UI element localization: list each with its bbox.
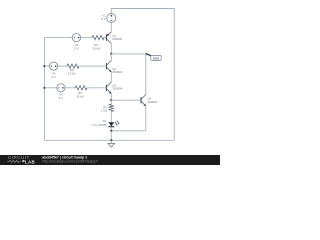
svg-text:5 V: 5 V [59, 96, 63, 100]
wire Q2 collector up to out node [110, 54, 112, 61]
svg-text:10 kΩ: 10 kΩ [92, 47, 100, 51]
svg-text:10 kΩ: 10 kΩ [76, 95, 84, 99]
wire node down to ground rail [110, 131, 112, 141]
transistor Q3 [106, 82, 123, 94]
svg-text:2N3904: 2N3904 [112, 70, 122, 74]
node out flag [146, 54, 161, 61]
transistor Q1 [106, 32, 123, 44]
svg-text:LAB: LAB [25, 160, 35, 165]
svg-text:5 V: 5 V [51, 75, 55, 79]
voltage source V2 [72, 33, 80, 50]
row C junction on left rail [43, 87, 45, 89]
wire Q4 emitter down and left to LED node [111, 106, 146, 131]
wire R5 to Q3 base [87, 87, 106, 89]
transistor Q2 [106, 60, 123, 74]
voltage source V1 [101, 13, 115, 22]
resistor R4 [92, 36, 104, 51]
wire LED cathode to node [110, 127, 112, 131]
wire node to Q4 base [111, 99, 141, 101]
svg-text:1 kΩ: 1 kΩ [101, 109, 108, 113]
wire out node to Q4 collector [111, 54, 146, 95]
wire R4 to Q1 base [104, 37, 106, 39]
svg-text:2N3904: 2N3904 [112, 87, 122, 91]
wire rail to source V4 [45, 87, 57, 89]
voltage source V4 [57, 84, 65, 100]
node LED / Q4 emitter junction [110, 130, 112, 132]
wire V1 bottom to Q1 emitter [110, 22, 112, 31]
wire V3 to R6 [58, 65, 67, 67]
watermark bar [0, 155, 220, 165]
node out junction [110, 53, 112, 55]
wire rail to source V3 [45, 65, 50, 67]
svg-text:vout: vout [153, 56, 159, 60]
transistor Q4 [141, 95, 158, 107]
resistor R6 [67, 64, 79, 76]
wire V2 to R4 [81, 37, 92, 39]
wire Q3 emitter down to node [110, 94, 112, 101]
resistor R2 [101, 100, 114, 122]
resistor R5 [75, 86, 87, 99]
wire V4 to R5 [65, 87, 75, 89]
ground [108, 140, 115, 147]
LED D1 [93, 119, 120, 127]
svg-text:8 V: 8 V [101, 17, 105, 21]
voltage source V3 [50, 62, 58, 79]
node ground junction [110, 139, 112, 141]
svg-text:LTL-4NT88: LTL-4NT88 [93, 123, 107, 127]
svg-text:2N3906: 2N3906 [112, 37, 122, 41]
wire R6 to Q2 base [79, 65, 106, 67]
svg-text:5 V: 5 V [74, 46, 78, 50]
node at Q3 emitter / R2 / Q4 base [110, 99, 112, 101]
svg-text:http://circuitlab.com/c/ce7dr8: http://circuitlab.com/c/ce7dr87dsqng7/ [42, 159, 98, 163]
wire Q1 collector to out node [110, 43, 112, 54]
wire Q2 emitter to Q3 collector [110, 72, 112, 82]
row B junction on left rail [43, 65, 45, 67]
row A wire from left rail to source V2 [45, 37, 73, 39]
svg-text:10 kΩ: 10 kΩ [68, 72, 76, 76]
wire bottom rail [45, 139, 175, 141]
wire top rail from V1 plus to right rail and down [111, 9, 174, 141]
wire left rail [44, 38, 46, 141]
svg-text:2N3904: 2N3904 [147, 100, 157, 104]
